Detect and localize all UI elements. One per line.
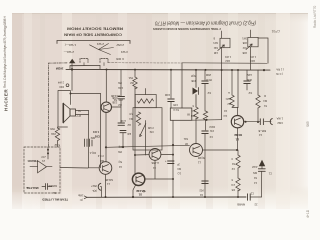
svg-text:DRI: DRI <box>59 85 64 89</box>
loudspeaker LS1 <box>58 91 70 128</box>
svg-text:FM: FM <box>150 130 154 134</box>
svg-text:3W7: 3W7 <box>91 184 97 188</box>
svg-text:1M: 1M <box>118 103 122 107</box>
resistor R7 33ohm <box>55 128 59 141</box>
rail junction dots <box>71 68 265 71</box>
svg-text:COMPONENT SIDE OF MAIN: COMPONENT SIDE OF MAIN <box>64 33 122 37</box>
svg-text:TRACK: TRACK <box>27 159 38 163</box>
svg-text:3 W4: 3 W4 <box>121 50 128 54</box>
svg-text:15B: 15B <box>112 101 117 105</box>
transistor Q4 driver <box>149 149 161 161</box>
svg-text:*Ω: *Ω <box>78 109 81 113</box>
svg-text:BPL-B: BPL-B <box>258 129 266 133</box>
capacitor C16 output coupling <box>260 119 263 125</box>
chassis boundary (dash-dot) <box>49 63 68 147</box>
svg-text:05-Ω: 05-Ω <box>206 78 212 82</box>
svg-text:S1: S1 <box>138 193 142 197</box>
svg-text:220: 220 <box>118 98 123 102</box>
svg-text:V M6: V M6 <box>147 126 154 130</box>
transistor Q3 (AD140 power) <box>132 173 144 185</box>
svg-text:A 3R: A 3R <box>120 119 126 123</box>
svg-text:(X:: (X: <box>79 198 83 202</box>
svg-text:5Q: 5Q <box>119 160 122 164</box>
svg-text:# TONE COMPONENTS SHOWN IN MAI: # TONE COMPONENTS SHOWN IN MAIN CHASSIS <box>153 27 221 31</box>
capacitor C19 <box>42 184 52 190</box>
svg-text:R1M: R1M <box>210 125 215 129</box>
ceramic filter block <box>85 139 93 147</box>
svg-text:33Ω: 33Ω <box>51 132 56 136</box>
svg-text:ED: ED <box>127 132 131 136</box>
svg-text:1Wp: 1Wp <box>77 194 83 198</box>
scanned paper sheet <box>12 13 308 209</box>
svg-text:w: w <box>228 91 230 94</box>
svg-text:MΩ: MΩ <box>191 114 195 118</box>
svg-text:CP01: CP01 <box>271 29 280 33</box>
svg-text:2 W4: 2 W4 <box>57 81 64 85</box>
svg-text:2-9: 2-9 <box>231 183 235 187</box>
svg-text:7R6: 7R6 <box>50 127 55 131</box>
svg-text:5 12: 5 12 <box>54 143 60 147</box>
left margin vertical small text <box>3 15 7 88</box>
wire column with capacitor C9 <box>120 70 122 96</box>
transistor Q2 (AC128) <box>99 162 112 175</box>
switch S2 with labels <box>213 37 218 54</box>
svg-text:8Q8: 8Q8 <box>191 74 196 78</box>
svg-text:3W: 3W <box>118 81 122 85</box>
svg-text:34Ω: 34Ω <box>213 46 218 48</box>
svg-text:15B: 15B <box>191 79 196 83</box>
svg-text:2 WA—: 2 WA— <box>64 50 74 54</box>
svg-text:JP: JP <box>177 163 180 167</box>
svg-text:3W1: 3W1 <box>242 37 247 39</box>
svg-text:1 W4: 1 W4 <box>225 55 231 58</box>
capacitor C13 electrolytic <box>202 131 208 134</box>
diode D1 <box>193 88 199 95</box>
svg-text:3W1: 3W1 <box>213 41 218 43</box>
supply rail (top) <box>66 68 270 71</box>
svg-text:C2: C2 <box>231 167 235 171</box>
title line 1 (upside down) <box>64 20 256 37</box>
svg-text:A-156: A-156 <box>151 161 159 165</box>
svg-text:MΩ: MΩ <box>100 159 104 163</box>
bottom white fade of page <box>0 203 320 226</box>
earth arrow with capacitor C17 <box>259 160 265 166</box>
gram pickup dashed box <box>24 147 60 193</box>
svg-text:3M: 3M <box>130 81 134 85</box>
transistor Q1 (AC128) <box>101 102 111 112</box>
svg-text:8,8: 8,8 <box>129 112 133 116</box>
svg-text:REMOTE SOCKET FROM: REMOTE SOCKET FROM <box>67 27 123 31</box>
svg-text:8Q1B: 8Q1B <box>198 156 205 160</box>
resistor R2 and volume control box <box>134 70 136 77</box>
svg-text:84L: 84L <box>183 137 188 141</box>
svg-text:7Ω2: 7Ω2 <box>242 46 247 48</box>
connector 3W7 <box>98 183 101 190</box>
svg-text:(Fig.2) Circuit Diagram of Ame: (Fig.2) Circuit Diagram of American — Mo… <box>155 20 256 26</box>
svg-text:TEAR MIL LYTRED: TEAR MIL LYTRED <box>42 198 68 202</box>
remote socket body outline <box>70 65 100 67</box>
svg-text:(2)L: (2)L <box>92 189 97 193</box>
wire node B column <box>221 70 223 120</box>
wire switch S3 to rail <box>258 38 268 63</box>
svg-text:11: 11 <box>153 166 156 170</box>
svg-text:( 1 RA: ( 1 RA <box>276 68 284 72</box>
svg-text:X: X <box>231 157 233 161</box>
capacitor C18 in ground rail <box>248 194 251 200</box>
svg-text:8A12B: 8A12B <box>105 178 113 182</box>
svg-text:RQ A: RQ A <box>90 151 96 155</box>
svg-text:1R2: 1R2 <box>225 59 230 62</box>
svg-text:MALTNE: MALTNE <box>26 186 38 190</box>
remote control socket bracket <box>57 41 130 44</box>
svg-text:K2: K2 <box>248 91 252 95</box>
socket pin symbols <box>80 59 88 63</box>
wire with junction dots <box>47 147 49 159</box>
svg-text:A1M: A1M <box>247 73 252 77</box>
switch S3 with labels <box>242 37 247 54</box>
capacitor C14 <box>202 181 208 184</box>
svg-text:81 Ω: 81 Ω <box>173 108 179 112</box>
svg-text:MM9B: MM9B <box>237 203 245 207</box>
svg-text:C1: C1 <box>268 172 272 176</box>
switch S1 contact fan <box>90 44 114 55</box>
svg-text:S65: S65 <box>306 121 310 127</box>
svg-text:M4: M4 <box>129 117 133 121</box>
svg-text:3FB: 3FB <box>247 78 252 82</box>
ground rail junction dots <box>132 196 239 198</box>
svg-text:Radio Ltd RT70: Radio Ltd RT70 <box>313 6 317 28</box>
svg-text:+5V: +5V <box>41 155 46 159</box>
svg-text:22: 22 <box>254 203 257 207</box>
svg-text:4+1D: 4+1D <box>306 209 310 218</box>
svg-text:9Q: 9Q <box>119 145 122 149</box>
capacitor C10 <box>118 123 125 125</box>
resistors R17 R18 <box>236 155 240 168</box>
svg-text:1W: 1W <box>210 129 214 133</box>
svg-text:2 W4: 2 W4 <box>97 42 104 46</box>
resistor R12 <box>194 107 198 119</box>
svg-text:1Ω: 1Ω <box>178 172 181 176</box>
svg-text:M4: M4 <box>263 99 267 103</box>
svg-text:1 W4: 1 W4 <box>250 55 256 58</box>
svg-text:C3: C3 <box>209 135 213 139</box>
svg-text:26M: 26M <box>206 73 211 77</box>
svg-text:MN: MN <box>253 171 257 175</box>
svg-text:2-9: 2-9 <box>191 109 195 113</box>
svg-text:R: R <box>264 94 266 98</box>
svg-text:D8: D8 <box>231 188 235 192</box>
wire speaker feed <box>71 69 73 90</box>
wire pickup to Q2 <box>60 167 88 170</box>
transistor Q6 (AD161 output) <box>231 116 243 128</box>
svg-text:1 WA: 1 WA <box>276 117 283 121</box>
svg-text:162M: 162M <box>55 66 63 70</box>
svg-text:14B: 14B <box>213 51 218 53</box>
svg-text:V02: V02 <box>199 189 204 193</box>
svg-text:1 R4: 1 R4 <box>93 130 99 134</box>
svg-text:HACKER: HACKER <box>4 89 9 111</box>
svg-text:M2: M2 <box>227 102 231 106</box>
ground rail (bottom) <box>87 196 246 198</box>
capacitor C2 column with resistor R13 <box>204 70 206 80</box>
svg-text:16M: 16M <box>165 93 170 97</box>
svg-text:10Ω: 10Ω <box>118 86 123 90</box>
svg-text:C RW: C RW <box>116 57 124 61</box>
resistor R16 <box>257 70 259 95</box>
svg-text:Rec'd. Cold Murphys Ltd Scan H: Rec'd. Cold Murphys Ltd Scan Helyrs 4975… <box>3 15 7 88</box>
capacitor C6 electrolytic <box>168 161 174 164</box>
svg-text:C2: C2 <box>250 192 254 196</box>
svg-text:1RQ: 1RQ <box>250 59 255 62</box>
svg-text:8C3B: 8C3B <box>233 133 242 137</box>
svg-text:( C W: ( C W <box>276 72 283 76</box>
svg-text:L1: L1 <box>197 161 201 165</box>
capacitor C5 column <box>170 70 172 98</box>
wires speaker to node A <box>76 111 89 115</box>
transistor Q5 (BC148) <box>190 144 203 157</box>
svg-text:C9B: C9B <box>112 96 117 100</box>
svg-text:O2C: O2C <box>226 97 231 101</box>
svg-text:A5B: A5B <box>242 41 247 44</box>
svg-text:1RB: 1RB <box>242 51 247 53</box>
svg-text:C05: C05 <box>173 103 178 107</box>
paper streaks <box>24 13 290 209</box>
svg-text:MM: MM <box>91 136 95 140</box>
svg-text:L1: L1 <box>235 138 239 142</box>
svg-text:Ω2: Ω2 <box>127 123 131 127</box>
svg-text:1 WA—(: 1 WA—( <box>65 43 76 47</box>
svg-text:8V1: 8V1 <box>128 76 133 80</box>
chassis boundary right section <box>108 62 182 64</box>
svg-text:1Ω: 1Ω <box>224 114 227 118</box>
chassis earth arrow <box>69 59 75 64</box>
svg-text:CM2: CM2 <box>277 121 283 125</box>
svg-text:KRMΩL: KRMΩL <box>48 184 57 187</box>
resistor R15 to Q6 base <box>231 70 233 95</box>
svg-text:V 0-3: V 0-3 <box>97 154 104 158</box>
svg-text:MC: MC <box>177 167 181 171</box>
svg-text:A1M: A1M <box>252 165 257 169</box>
pickup transducer symbol <box>37 161 39 174</box>
capacitor C15 <box>246 70 248 80</box>
svg-text:2 RW: 2 RW <box>116 43 124 47</box>
svg-text:9W: 9W <box>118 150 122 154</box>
potentiometer wiper arrow <box>140 124 146 137</box>
svg-text:K2: K2 <box>207 91 211 95</box>
